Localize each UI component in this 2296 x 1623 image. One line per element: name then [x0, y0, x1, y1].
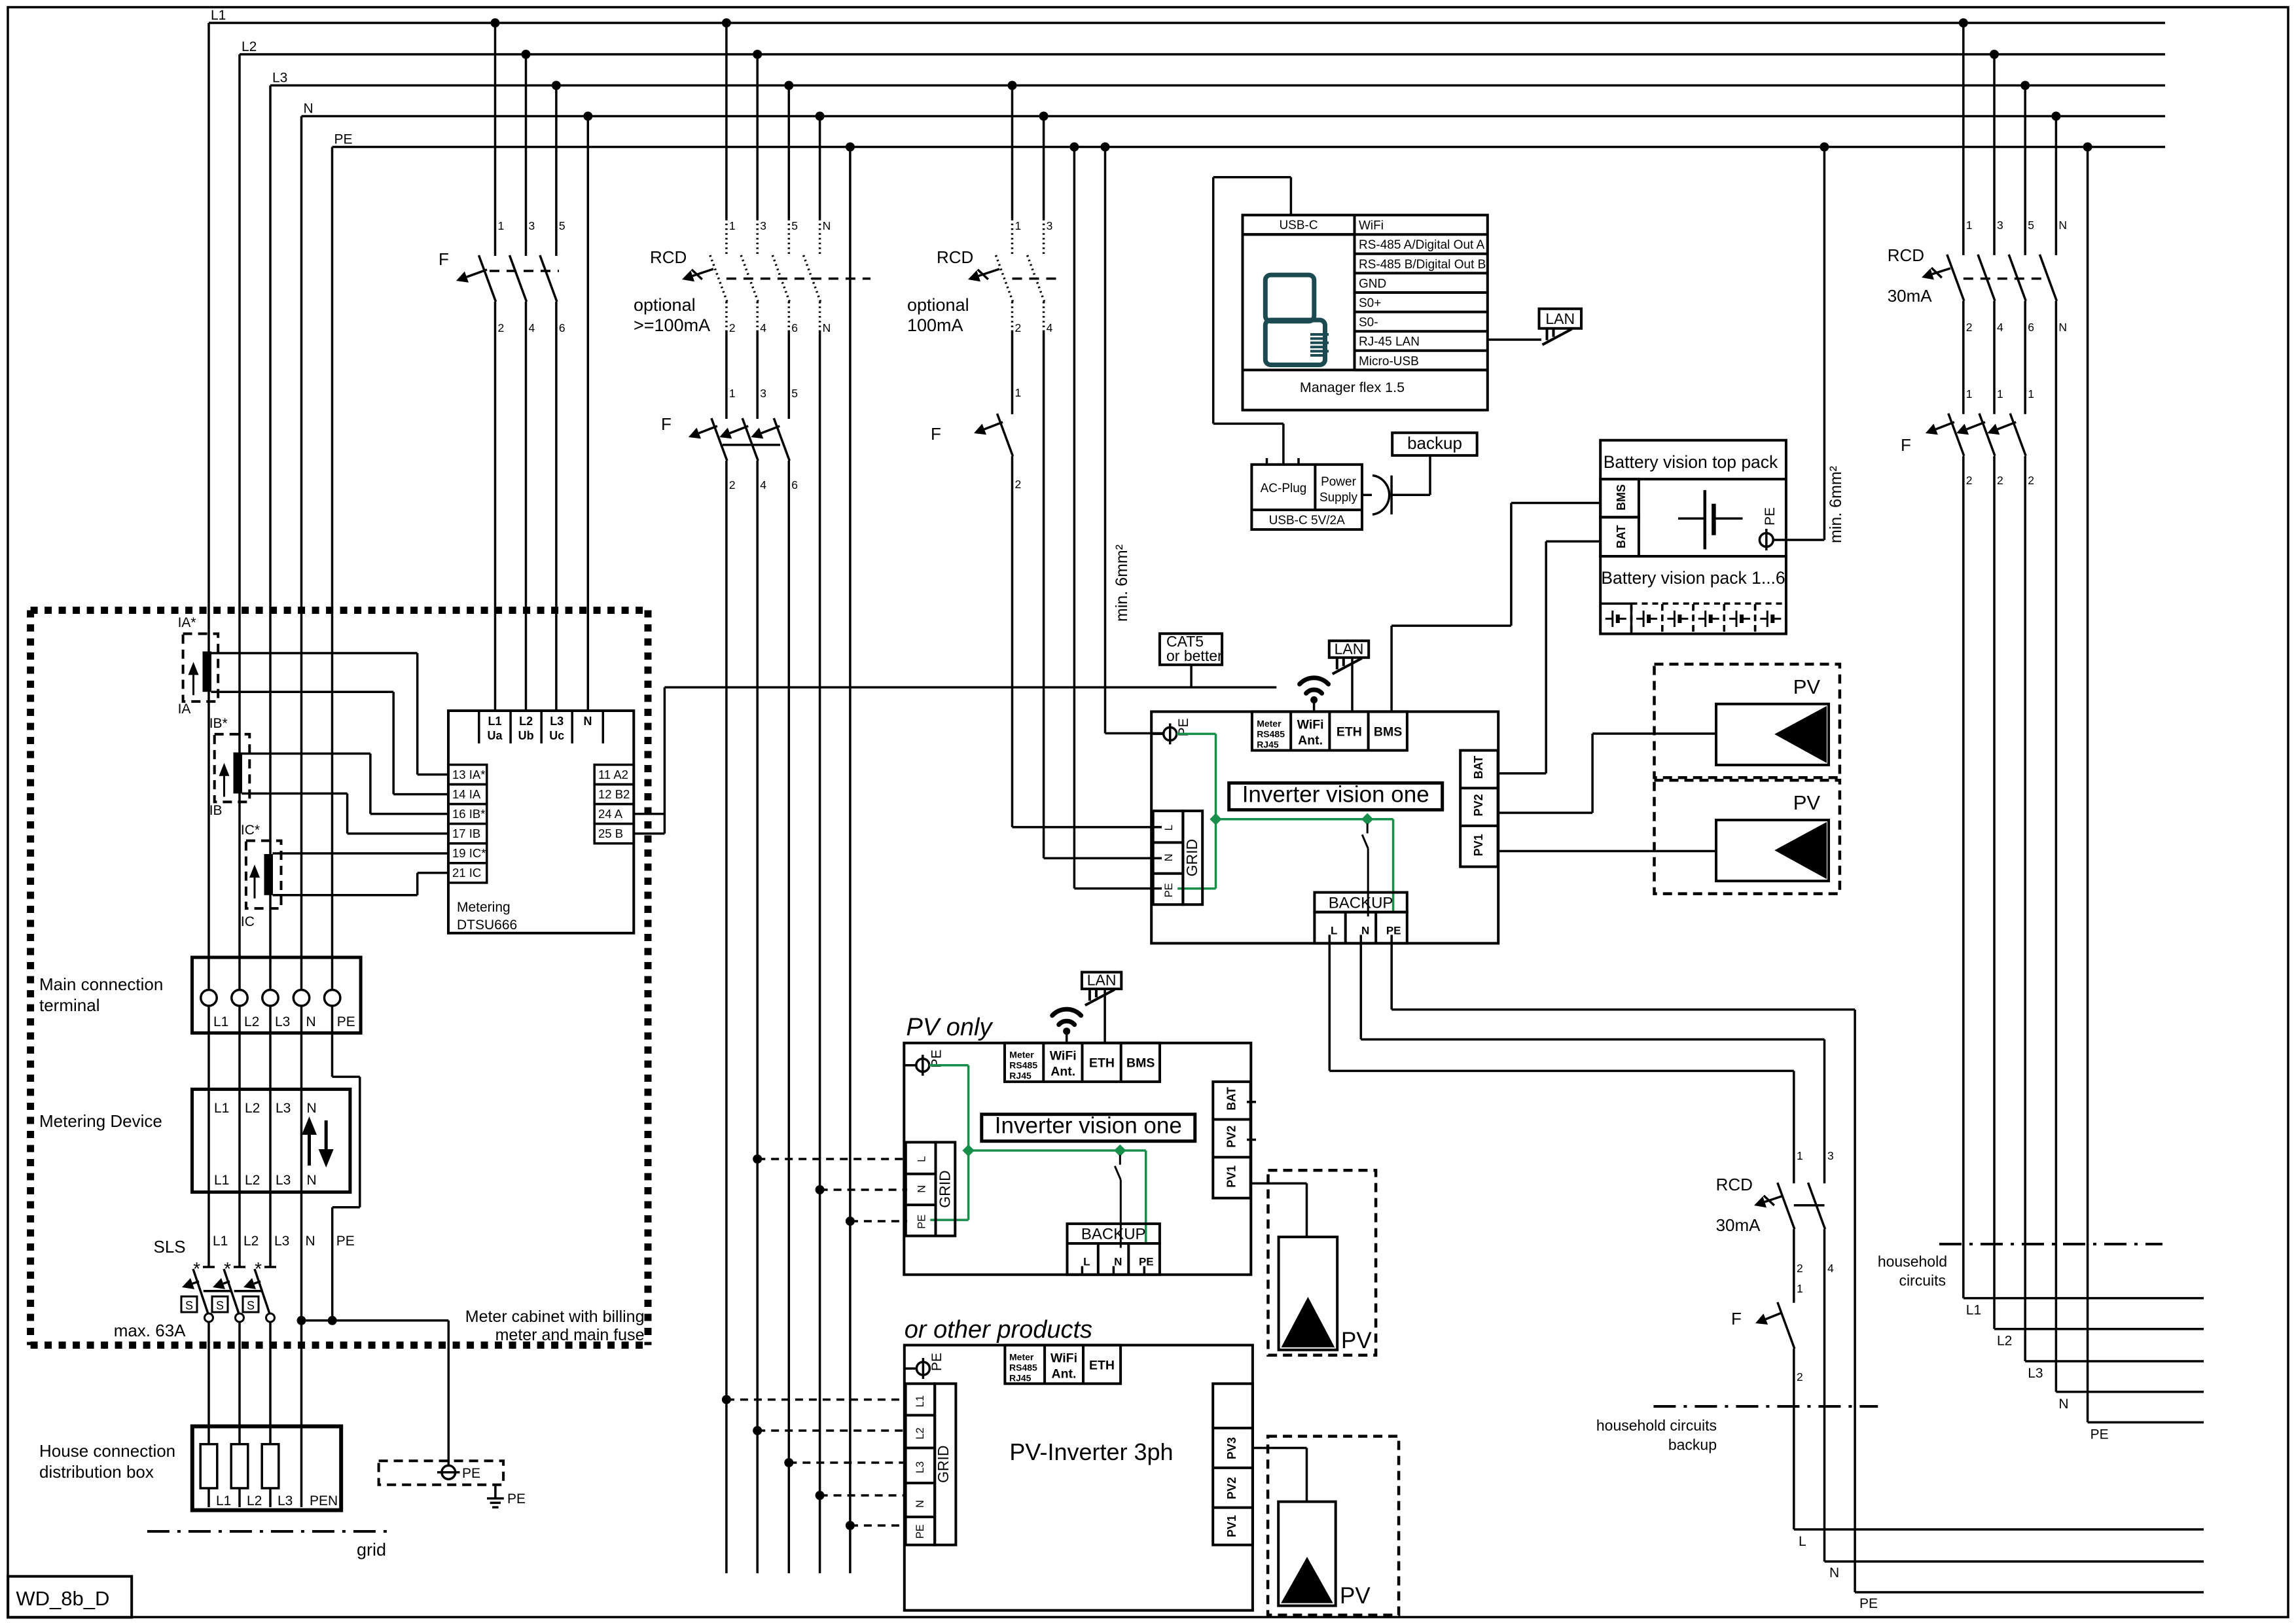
- svg-text:optional: optional: [634, 295, 696, 315]
- svg-text:PV only: PV only: [906, 1014, 994, 1041]
- svg-text:12 B2: 12 B2: [598, 787, 630, 801]
- svg-text:5: 5: [559, 219, 565, 232]
- svg-text:N: N: [307, 1173, 317, 1188]
- svg-text:Inverter vision one: Inverter vision one: [995, 1113, 1182, 1139]
- svg-text:N: N: [2058, 321, 2067, 334]
- svg-text:L2: L2: [519, 715, 533, 728]
- svg-text:N: N: [823, 219, 831, 232]
- svg-text:3: 3: [529, 219, 535, 232]
- svg-text:L2: L2: [1997, 1334, 2012, 1349]
- svg-text:BAT: BAT: [1615, 525, 1628, 548]
- svg-text:L3: L3: [914, 1461, 926, 1473]
- svg-text:SLS: SLS: [154, 1237, 186, 1257]
- svg-text:S: S: [247, 1299, 255, 1312]
- svg-text:PE: PE: [507, 1491, 526, 1507]
- svg-text:F: F: [931, 424, 941, 444]
- svg-text:2: 2: [1797, 1262, 1803, 1275]
- svg-text:PV1: PV1: [1472, 834, 1485, 856]
- svg-text:PV2: PV2: [1472, 794, 1485, 816]
- svg-text:S: S: [185, 1299, 193, 1312]
- svg-text:min. 6mm²: min. 6mm²: [1113, 544, 1131, 622]
- svg-text:LAN: LAN: [1545, 310, 1575, 327]
- svg-text:RJ45: RJ45: [1009, 1071, 1031, 1081]
- svg-text:Meter cabinet with billing: Meter cabinet with billing: [465, 1308, 645, 1326]
- svg-text:IB*: IB*: [209, 716, 228, 731]
- svg-text:Meter: Meter: [1009, 1351, 1034, 1362]
- svg-text:Ant.: Ant.: [1298, 733, 1323, 747]
- svg-text:N: N: [823, 321, 831, 334]
- svg-text:USB-C 5V/2A: USB-C 5V/2A: [1269, 514, 1345, 527]
- svg-text:L3: L3: [272, 71, 287, 86]
- svg-text:1: 1: [729, 219, 736, 232]
- svg-text:1: 1: [729, 387, 736, 400]
- svg-text:GND: GND: [1359, 277, 1386, 291]
- svg-text:Metering Device: Metering Device: [39, 1111, 162, 1131]
- svg-text:N: N: [1829, 1565, 1839, 1580]
- svg-text:PE: PE: [337, 1014, 355, 1029]
- svg-text:1: 1: [1966, 219, 1973, 232]
- svg-text:RS485: RS485: [1257, 728, 1285, 739]
- svg-text:PV: PV: [1341, 1328, 1372, 1353]
- svg-text:BMS: BMS: [1615, 484, 1628, 510]
- svg-text:PE: PE: [1139, 1256, 1154, 1268]
- svg-text:S: S: [216, 1299, 224, 1312]
- svg-text:L1: L1: [213, 1014, 228, 1029]
- svg-text:Manager flex 1.5: Manager flex 1.5: [1300, 380, 1405, 395]
- svg-text:min. 6mm²: min. 6mm²: [1827, 466, 1845, 543]
- svg-text:Ua: Ua: [487, 729, 503, 742]
- svg-text:S0-: S0-: [1359, 316, 1378, 330]
- svg-text:Battery vision top pack: Battery vision top pack: [1604, 452, 1778, 472]
- svg-text:IA: IA: [178, 702, 191, 717]
- svg-text:L3: L3: [276, 1101, 291, 1116]
- svg-text:LAN: LAN: [1335, 640, 1364, 657]
- svg-text:L1: L1: [216, 1493, 231, 1508]
- svg-text:PEN: PEN: [310, 1493, 338, 1508]
- svg-text:PE: PE: [929, 1353, 944, 1371]
- svg-text:L3: L3: [278, 1493, 293, 1508]
- svg-text:L1: L1: [214, 1173, 229, 1188]
- svg-text:BMS: BMS: [1126, 1056, 1155, 1071]
- svg-text:PV-Inverter 3ph: PV-Inverter 3ph: [1009, 1438, 1173, 1465]
- svg-text:4: 4: [529, 321, 535, 334]
- svg-text:GRID: GRID: [935, 1446, 952, 1484]
- svg-text:PV2: PV2: [1225, 1126, 1238, 1148]
- svg-text:PV1: PV1: [1225, 1166, 1238, 1188]
- svg-text:N: N: [1114, 1256, 1122, 1268]
- svg-text:GRID: GRID: [1183, 839, 1200, 877]
- svg-text:N: N: [304, 101, 314, 116]
- svg-text:6: 6: [791, 478, 798, 491]
- svg-text:L2: L2: [243, 1234, 259, 1249]
- svg-text:L3: L3: [275, 1014, 290, 1029]
- svg-text:L1: L1: [213, 1234, 228, 1249]
- svg-text:PE: PE: [462, 1466, 480, 1481]
- svg-text:L: L: [1799, 1534, 1806, 1549]
- svg-text:IB: IB: [209, 803, 223, 818]
- svg-text:Power: Power: [1321, 475, 1357, 489]
- svg-text:5: 5: [2028, 219, 2034, 232]
- svg-text:PV3: PV3: [1225, 1437, 1238, 1459]
- svg-text:RS-485 A/Digital Out A: RS-485 A/Digital Out A: [1359, 238, 1485, 252]
- svg-text:PE: PE: [334, 132, 353, 147]
- svg-text:terminal: terminal: [39, 995, 99, 1015]
- svg-text:Inverter vision one: Inverter vision one: [1242, 781, 1429, 807]
- svg-text:RCD: RCD: [650, 247, 687, 267]
- svg-text:6: 6: [559, 321, 565, 334]
- svg-text:RCD: RCD: [937, 247, 973, 267]
- svg-text:2: 2: [1997, 474, 2003, 487]
- svg-text:L: L: [916, 1156, 927, 1162]
- svg-text:USB-C: USB-C: [1279, 219, 1318, 232]
- svg-text:100mA: 100mA: [907, 315, 963, 335]
- svg-text:WiFi: WiFi: [1359, 219, 1384, 233]
- svg-text:Meter: Meter: [1257, 718, 1282, 728]
- svg-text:L2: L2: [247, 1493, 262, 1508]
- svg-text:Ub: Ub: [518, 729, 534, 742]
- svg-text:F: F: [661, 414, 672, 434]
- svg-text:N: N: [307, 1101, 317, 1116]
- svg-text:L1: L1: [1966, 1303, 1981, 1318]
- svg-text:RCD: RCD: [1888, 245, 1924, 265]
- svg-text:1: 1: [1015, 219, 1022, 232]
- svg-text:L3: L3: [274, 1234, 289, 1249]
- svg-text:PV1: PV1: [1225, 1515, 1238, 1537]
- svg-text:N: N: [1163, 853, 1175, 861]
- svg-text:PE: PE: [336, 1234, 355, 1249]
- svg-text:F: F: [439, 249, 449, 269]
- svg-text:IC*: IC*: [241, 823, 260, 838]
- svg-text:4: 4: [760, 478, 766, 491]
- svg-text:optional: optional: [907, 295, 969, 315]
- svg-text:BAT: BAT: [1225, 1087, 1238, 1111]
- svg-text:1: 1: [1997, 387, 2003, 401]
- svg-text:PV: PV: [1340, 1583, 1371, 1609]
- svg-text:grid: grid: [357, 1540, 386, 1560]
- svg-text:PE: PE: [914, 1524, 926, 1539]
- svg-text:BACKUP: BACKUP: [1081, 1226, 1146, 1243]
- svg-text:3: 3: [1047, 219, 1053, 232]
- svg-text:1: 1: [1797, 1282, 1803, 1295]
- svg-text:F: F: [1901, 435, 1911, 455]
- svg-text:meter and main fuse: meter and main fuse: [495, 1326, 645, 1344]
- svg-text:Supply: Supply: [1319, 491, 1358, 505]
- svg-text:ETH: ETH: [1089, 1358, 1115, 1372]
- svg-text:IC: IC: [241, 914, 255, 929]
- svg-text:PE: PE: [1386, 924, 1401, 936]
- svg-text:6: 6: [2028, 321, 2034, 334]
- svg-text:PV: PV: [1793, 791, 1821, 814]
- svg-text:ETH: ETH: [1336, 724, 1362, 739]
- svg-text:L1: L1: [914, 1395, 926, 1407]
- svg-text:4: 4: [760, 321, 766, 334]
- svg-text:L2: L2: [245, 1101, 260, 1116]
- svg-text:RJ45: RJ45: [1257, 739, 1279, 749]
- svg-text:25 B: 25 B: [598, 827, 623, 840]
- svg-text:5: 5: [791, 219, 798, 232]
- svg-text:N: N: [306, 1014, 316, 1029]
- svg-text:3: 3: [1997, 219, 2003, 232]
- svg-text:Meter: Meter: [1009, 1050, 1034, 1060]
- svg-text:N: N: [914, 1500, 926, 1508]
- svg-text:distribution box: distribution box: [39, 1462, 154, 1482]
- svg-text:L3: L3: [276, 1173, 291, 1188]
- svg-text:30mA: 30mA: [1716, 1215, 1761, 1235]
- svg-text:30mA: 30mA: [1888, 286, 1933, 306]
- svg-text:5: 5: [791, 387, 798, 400]
- svg-text:Ant.: Ant.: [1052, 1366, 1077, 1381]
- svg-text:DTSU666: DTSU666: [457, 918, 517, 933]
- svg-text:Uc: Uc: [549, 729, 564, 742]
- svg-text:4: 4: [1047, 321, 1053, 334]
- svg-text:WiFi: WiFi: [1050, 1351, 1077, 1365]
- svg-text:N: N: [584, 715, 592, 728]
- svg-text:2: 2: [729, 478, 736, 491]
- svg-text:L2: L2: [244, 1014, 259, 1029]
- svg-text:L2: L2: [242, 39, 257, 54]
- svg-text:PE: PE: [1163, 883, 1175, 897]
- svg-text:2: 2: [1015, 321, 1022, 334]
- svg-text:L1: L1: [211, 8, 226, 23]
- svg-text:Micro-USB: Micro-USB: [1359, 355, 1419, 368]
- svg-text:L: L: [1083, 1256, 1090, 1268]
- svg-text:N: N: [916, 1185, 927, 1193]
- svg-text:N: N: [2058, 219, 2067, 232]
- svg-text:L1: L1: [488, 715, 501, 728]
- svg-text:16 IB*: 16 IB*: [452, 807, 485, 821]
- svg-text:circuits: circuits: [1899, 1272, 1946, 1289]
- svg-text:PV2: PV2: [1225, 1477, 1238, 1499]
- svg-text:2: 2: [2028, 474, 2034, 487]
- svg-text:or other products: or other products: [905, 1316, 1092, 1344]
- svg-text:BACKUP: BACKUP: [1329, 894, 1393, 912]
- svg-text:RS485: RS485: [1009, 1060, 1037, 1071]
- svg-text:PE: PE: [1763, 507, 1778, 526]
- svg-text:WiFi: WiFi: [1050, 1049, 1077, 1063]
- svg-text:1: 1: [1797, 1149, 1803, 1162]
- svg-text:Ant.: Ant.: [1050, 1065, 1075, 1079]
- svg-text:WiFi: WiFi: [1297, 717, 1324, 732]
- svg-text:L2: L2: [245, 1173, 260, 1188]
- svg-text:S0+: S0+: [1359, 296, 1381, 310]
- svg-text:L: L: [1163, 825, 1175, 830]
- svg-text:PV: PV: [1793, 675, 1821, 698]
- svg-text:or better: or better: [1166, 647, 1223, 664]
- svg-text:RS-485 B/Digital Out B: RS-485 B/Digital Out B: [1359, 258, 1486, 272]
- svg-text:17 IB: 17 IB: [452, 827, 480, 840]
- svg-text:21 IC: 21 IC: [452, 866, 481, 880]
- svg-text:RS485: RS485: [1009, 1362, 1037, 1372]
- svg-text:F: F: [1731, 1309, 1742, 1329]
- svg-text:Main connection: Main connection: [39, 974, 163, 994]
- svg-text:3: 3: [1827, 1149, 1834, 1162]
- svg-text:household: household: [1878, 1253, 1947, 1270]
- svg-text:1: 1: [2028, 387, 2034, 401]
- svg-text:1: 1: [1015, 386, 1022, 399]
- svg-text:PE: PE: [916, 1215, 927, 1229]
- svg-text:N: N: [1361, 924, 1369, 936]
- svg-text:24 A: 24 A: [598, 807, 623, 821]
- svg-text:3: 3: [760, 387, 766, 400]
- svg-text:1: 1: [498, 219, 505, 232]
- svg-text:13 IA*: 13 IA*: [452, 768, 485, 781]
- svg-text:2: 2: [729, 321, 736, 334]
- svg-text:PE: PE: [2090, 1427, 2109, 1442]
- svg-text:WD_8b_D: WD_8b_D: [16, 1587, 109, 1610]
- svg-text:L3: L3: [2028, 1366, 2043, 1381]
- svg-text:backup: backup: [1407, 433, 1462, 453]
- svg-text:19 IC*: 19 IC*: [452, 846, 486, 860]
- svg-text:2: 2: [498, 321, 505, 334]
- svg-text:L3: L3: [550, 715, 564, 728]
- svg-text:4: 4: [1827, 1262, 1834, 1275]
- svg-text:RJ45: RJ45: [1009, 1372, 1031, 1383]
- svg-text:Metering: Metering: [457, 900, 511, 915]
- svg-text:L2: L2: [914, 1427, 926, 1439]
- svg-text:LAN: LAN: [1087, 972, 1117, 989]
- svg-text:N: N: [306, 1234, 315, 1249]
- svg-text:1: 1: [1966, 387, 1973, 401]
- svg-text:backup: backup: [1668, 1436, 1717, 1454]
- svg-text:House connection: House connection: [39, 1441, 175, 1461]
- svg-text:6: 6: [791, 321, 798, 334]
- svg-text:ETH: ETH: [1089, 1056, 1115, 1071]
- svg-text:2: 2: [1015, 478, 1022, 491]
- svg-text:max. 63A: max. 63A: [114, 1321, 186, 1340]
- svg-text:RJ-45 LAN: RJ-45 LAN: [1359, 335, 1420, 349]
- svg-text:AC-Plug: AC-Plug: [1261, 482, 1307, 495]
- svg-text:2: 2: [1797, 1370, 1803, 1383]
- svg-text:BMS: BMS: [1374, 724, 1402, 739]
- svg-text:Battery vision pack 1...6: Battery vision pack 1...6: [1601, 568, 1785, 588]
- svg-text:14 IA: 14 IA: [452, 787, 481, 801]
- svg-text:BAT: BAT: [1472, 756, 1485, 779]
- svg-text:L: L: [1331, 924, 1337, 936]
- svg-text:GRID: GRID: [936, 1170, 953, 1208]
- svg-text:IA*: IA*: [178, 615, 196, 630]
- svg-text:2: 2: [1966, 321, 1973, 334]
- svg-text:N: N: [2058, 1397, 2068, 1412]
- svg-text:2: 2: [1966, 474, 1973, 487]
- svg-text:4: 4: [1997, 321, 2003, 334]
- svg-text:L1: L1: [214, 1101, 229, 1116]
- svg-text:RCD: RCD: [1716, 1175, 1753, 1194]
- svg-text:>=100mA: >=100mA: [634, 315, 710, 335]
- svg-text:PE: PE: [1859, 1596, 1878, 1611]
- svg-text:11 A2: 11 A2: [598, 768, 628, 781]
- svg-text:3: 3: [760, 219, 766, 232]
- svg-text:household circuits: household circuits: [1596, 1417, 1717, 1434]
